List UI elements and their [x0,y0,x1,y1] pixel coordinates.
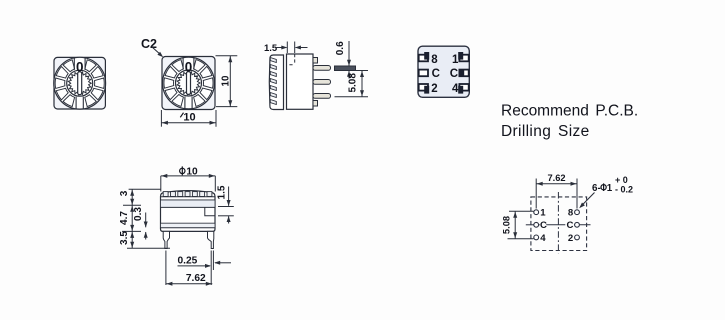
svg-text:2: 2 [431,83,437,95]
dimension 10 vertical (view B) [216,56,238,107]
dial channel bottom [76,97,83,109]
detached pin detail [335,66,356,71]
PCB outline dashed [531,197,587,251]
front view side step [205,207,215,215]
dial hub [176,70,202,96]
svg-text:0: 0 [185,59,193,74]
bottom view pin labels [431,54,459,95]
PCB hole 1 [534,210,539,215]
svg-text:4.7: 4.7 [119,211,130,225]
top view B body square [162,57,215,110]
front view right pin [208,231,214,248]
top view A body square [54,57,105,109]
svg-text:1: 1 [607,183,613,194]
dial hub serration [68,72,91,95]
svg-text:4: 4 [452,83,459,95]
svg-text:Recommend P.C.B.: Recommend P.C.B. [501,103,638,120]
svg-text:0.25: 0.25 [178,255,198,266]
dimension phi-10 dial diameter [161,166,216,191]
dimension 1.5 rotor width [264,42,308,55]
side view pin 1 [313,66,331,71]
bottom view pin 8 [419,52,430,61]
side view rotor wheel [269,55,283,110]
PCB hole labels [540,208,574,244]
dimension 10 horizontal (view B) [161,110,216,127]
side view pin stubs [313,58,318,64]
top view A rotary dial [54,57,106,109]
svg-text:1.5: 1.5 [264,43,278,54]
label C2 chamfer [141,37,163,57]
svg-text:1.5: 1.5 [217,185,228,199]
PCB hole 8 [575,210,580,215]
dial outer rim [163,57,215,109]
dial index channel top [74,58,85,70]
PCB vertical centerline [557,192,559,254]
side view pin 2 [313,94,331,99]
svg-text:7.62: 7.62 [186,273,206,284]
dial channel bottom [185,97,192,109]
dimension 7.62 pin spacing (front view) [166,273,212,286]
svg-text:0.6: 0.6 [335,41,346,55]
svg-text:5.08: 5.08 [347,73,358,93]
svg-text:5.08: 5.08 [501,216,511,234]
svg-text:1: 1 [540,208,546,219]
svg-text:2: 2 [568,233,573,244]
svg-text:3: 3 [119,190,130,196]
callout 6-phi-1 +0/-0.2 [579,175,633,208]
svg-text:C: C [566,220,573,231]
dial hub serration [177,71,200,94]
bottom view pin 1 [458,52,468,61]
side view hidden line [289,54,294,65]
svg-text:0.3: 0.3 [133,207,144,221]
svg-text:7.62: 7.62 [547,173,565,183]
svg-text:3.5: 3.5 [119,231,130,245]
svg-text:1: 1 [452,54,459,66]
dimension 1.5 (front view right) [217,185,234,223]
top view B rotary dial [163,57,215,109]
PCB hole C left [534,222,539,227]
bottom view body square [418,46,469,97]
dial position wedges [164,60,213,107]
svg-text:- 0.2: - 0.2 [615,184,633,194]
dimension 0.6 pin thickness [335,41,351,79]
front view knurl teeth [163,192,168,197]
side view body [287,54,314,109]
dimension 0.25 pin thickness [166,251,231,286]
bottom view pin C left [419,70,428,77]
dial hub [67,70,93,96]
dial slot [78,72,82,95]
bottom view pin 2 [419,84,430,94]
bottom view pin C right [459,70,468,77]
svg-text:10: 10 [186,167,198,178]
dimension 0.3 [133,207,148,240]
svg-text:8: 8 [568,208,574,219]
svg-text:C: C [450,68,458,80]
PCB horizontal centerline [526,224,591,226]
dial slot [187,72,191,95]
svg-text:C: C [540,220,547,231]
dimension 5.08 (PCB) [501,211,533,239]
front view body [161,191,216,232]
dial index channel top [183,58,194,70]
PCB hole C right [575,222,580,227]
svg-text:Drilling Size: Drilling Size [501,123,590,140]
dimension 7.62 (PCB) [536,173,577,208]
bottom view pin 4 [458,84,468,94]
svg-text:10: 10 [220,75,231,86]
svg-text:4: 4 [540,233,546,244]
dial position wedges [55,60,104,107]
dial outer rim [54,57,106,109]
PCB hole 4 [534,235,539,240]
svg-text:C: C [432,68,440,80]
svg-text:0: 0 [76,60,84,75]
svg-text:6-: 6- [592,183,601,194]
dimension chain 3 / 4.7 / 3.5 (front view left) [119,189,170,248]
front view left pin [163,231,169,248]
PCB hole 2 [575,235,580,240]
dimension 5.08 pin spacing [335,71,369,97]
svg-text:10: 10 [183,112,195,124]
svg-text:8: 8 [431,54,438,66]
side view pin C [313,80,331,85]
